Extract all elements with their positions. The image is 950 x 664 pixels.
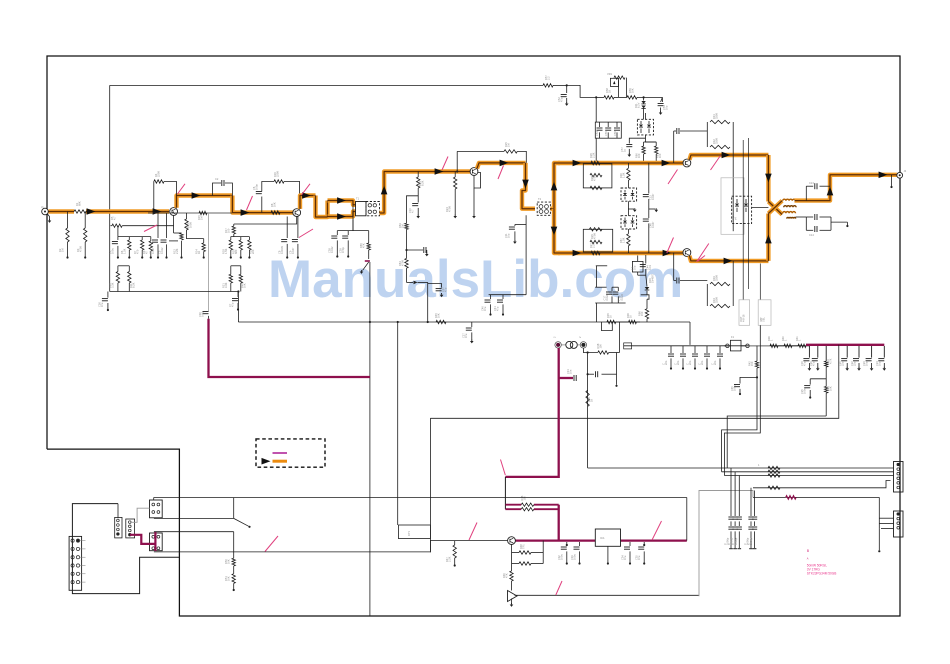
pink annotation leader 1 [178, 184, 186, 194]
svg-text:10K: 10K [631, 88, 635, 93]
resistor R53 [758, 463, 780, 470]
wire feedback corner [517, 151, 526, 163]
pink annotation leader 12 [265, 536, 278, 552]
resistor R51 [224, 574, 236, 591]
svg-text:470p: 470p [341, 247, 345, 253]
pink note marker B [807, 549, 810, 553]
resistor pair lower box [707, 275, 733, 308]
svg-text:2.2K: 2.2K [592, 152, 596, 158]
svg-text:330K: 330K [715, 138, 719, 144]
svg-text:1K: 1K [590, 399, 594, 402]
svg-text:100K: 100K [189, 222, 193, 228]
magenta sense line [209, 319, 371, 377]
signal arrow 10 [500, 160, 509, 167]
svg-text:470K: 470K [448, 206, 452, 212]
transistor Q5 [683, 249, 691, 257]
capacitor C3 [108, 237, 119, 259]
wire harness h2 [722, 471, 894, 473]
orange path Q5 vert [766, 214, 770, 261]
capacitor bank C54-C56 [595, 122, 622, 138]
signal arrow 16 [573, 250, 582, 257]
signal arrow 22 up [827, 187, 834, 196]
wire comparator out [515, 594, 700, 596]
transformer T3 winding 3 [783, 212, 796, 214]
svg-text:100: 100 [658, 153, 662, 158]
svg-text:22n: 22n [676, 360, 680, 365]
orange path Q4 out [690, 155, 769, 160]
capacitor C27 bus [461, 322, 473, 343]
capacitor C8 [277, 217, 288, 259]
resistor ladder upper [583, 164, 612, 190]
capacitor C34 [620, 542, 631, 565]
svg-text:47K: 47K [362, 243, 366, 248]
resistor R59 [627, 88, 637, 99]
wire vertical C [429, 418, 431, 552]
svg-text:1000p: 1000p [734, 537, 738, 545]
capacitor C4 [148, 213, 159, 259]
capacitor C6 Q2 feedback [252, 182, 274, 213]
magenta bottom trunk [505, 348, 558, 477]
magenta to rail [558, 505, 560, 541]
capacitor C5 [157, 213, 167, 259]
pink annotation leader 13 [469, 523, 477, 541]
resistor R39 [767, 336, 778, 348]
svg-text:1.5K: 1.5K [622, 237, 626, 243]
watermark [268, 250, 683, 309]
label box winding 2 [758, 300, 771, 326]
svg-text:8.2K: 8.2K [421, 180, 425, 186]
capacitor bank heater [661, 346, 723, 370]
capacitor C57 [620, 145, 633, 157]
signal arrow 11 down [522, 180, 529, 189]
resistor R17 [224, 224, 236, 237]
svg-text:10K: 10K [243, 283, 247, 288]
transformer T3 winding 1 [783, 199, 796, 201]
capacitor C16 coupling low [674, 253, 708, 284]
magenta bridge rail upper [505, 504, 558, 506]
regulator box U1 [595, 529, 620, 565]
capacitor C22 [850, 346, 861, 371]
wire bias to cross [752, 207, 769, 209]
resistor R18 [221, 237, 232, 259]
resistor R23 [417, 172, 425, 189]
wire lower box right leg [732, 261, 734, 284]
svg-text:680: 680 [234, 249, 238, 254]
wire lower pair rail [118, 265, 129, 267]
pink annotation leader 14 [501, 460, 506, 476]
wire bundle line1 [727, 416, 826, 468]
wire CN5 pin3 [881, 528, 894, 530]
wire harness feed [587, 351, 589, 468]
connector CN1 dsub [69, 536, 85, 590]
pink annotation leader 9 [711, 156, 721, 171]
label box winding 1 [739, 300, 750, 326]
wire bus tail [636, 321, 690, 323]
resistor R57 on B+ rail [543, 75, 553, 87]
wire snubber down [689, 322, 691, 345]
capacitor C24 [875, 346, 886, 371]
capacitor C17 [602, 287, 612, 303]
capacitor C26 [97, 292, 109, 312]
capacitor C53 [658, 97, 669, 115]
signal arrow 1 [87, 208, 96, 215]
wire cluster join [638, 272, 646, 275]
wire chain mid [233, 566, 235, 574]
pink annotation leader 3 [302, 184, 311, 195]
svg-text:10u: 10u [878, 361, 882, 366]
svg-text:100u: 100u [573, 554, 577, 560]
capacitor C20 [809, 346, 820, 371]
diode pack D14 dashed [621, 216, 637, 229]
wire bias verticals [743, 138, 748, 300]
svg-text:100p: 100p [255, 184, 259, 190]
svg-text:150: 150 [640, 311, 644, 316]
svg-text:10K: 10K [273, 202, 277, 207]
resistor R8 series [270, 202, 280, 214]
svg-text:47u: 47u [483, 306, 487, 311]
svg-text:220: 220 [251, 249, 255, 254]
wire to zener [637, 96, 662, 98]
bias diode dashed box [731, 196, 752, 223]
svg-text:330K: 330K [715, 113, 719, 119]
orange path upper power rail [558, 161, 686, 165]
wire Z bracket [595, 266, 607, 287]
svg-text:100: 100 [227, 228, 231, 233]
wire CN5 pin2 [879, 522, 893, 524]
svg-text:330K: 330K [715, 275, 719, 281]
capacitor C23 [862, 346, 874, 371]
orange path Q5 out [690, 256, 769, 261]
magenta jumper [130, 535, 155, 544]
transformer T3 winding 4 [787, 218, 796, 219]
wire Q1 base-line [148, 212, 232, 214]
wire cluster rail [595, 287, 625, 322]
resistor R66 [637, 309, 648, 322]
svg-text:10K: 10K [437, 313, 441, 318]
resistor R36 on bus [626, 313, 637, 324]
orange path splitter spine [550, 163, 560, 209]
capacitor C32 [557, 542, 568, 565]
svg-text:1.5K: 1.5K [622, 172, 626, 178]
signal arrow 12 up [551, 182, 558, 191]
capacitor C44 inline [640, 255, 652, 275]
wire r40-r41 [792, 345, 798, 347]
wire Q1 emitter [173, 215, 175, 225]
wire CN5 drop [878, 497, 880, 528]
wire H3 rise [430, 541, 507, 553]
wire emitter branch left [122, 225, 173, 227]
signal arrow 6 [337, 197, 346, 204]
resistor R20 [248, 237, 255, 259]
magenta tap mark [365, 260, 370, 262]
resistor R10 [108, 266, 120, 292]
wire RC tee [405, 249, 423, 251]
bus wire mid [110, 291, 239, 293]
bus wire lower [238, 321, 640, 323]
pink annotation leader 2 [247, 196, 253, 210]
resistor R30 grid [619, 163, 630, 188]
connector CN5 [894, 511, 904, 537]
svg-text:0.047: 0.047 [651, 221, 655, 228]
svg-text:470K: 470K [593, 233, 597, 239]
svg-text:10u: 10u [507, 233, 511, 238]
svg-text:T1: T1 [356, 197, 360, 201]
signal arrow 5 [302, 192, 311, 199]
svg-text:470K: 470K [79, 246, 83, 252]
output jack J4 [897, 169, 907, 178]
signal arrow 13 down [551, 227, 558, 236]
svg-text:2: 2 [553, 336, 557, 338]
gray return wire [699, 491, 753, 597]
svg-text:0.022: 0.022 [605, 293, 609, 300]
connector CN2 header [115, 517, 122, 538]
capacitor C38 [327, 231, 338, 258]
resistor R11 [128, 266, 136, 292]
svg-text:C55: C55 [604, 131, 608, 136]
pink annotation leader 10 [697, 244, 709, 262]
wire T2 sense vertical [525, 215, 527, 294]
orange path output [795, 175, 897, 201]
svg-text:68K: 68K [78, 201, 82, 206]
wire second level [810, 378, 826, 380]
svg-text:10K: 10K [227, 576, 231, 581]
capacitor C21 [838, 346, 849, 371]
resistor R27 in rail [589, 242, 600, 254]
svg-text:22n: 22n [664, 360, 668, 365]
svg-text:10u: 10u [633, 265, 637, 270]
resistor R24 [445, 172, 457, 219]
wire bus gap [616, 321, 629, 323]
wire T3 winding4 lead [796, 216, 807, 218]
capacitor C37 [428, 284, 448, 298]
wire cap feed [661, 97, 663, 102]
svg-text:STK23PG34M 50GB: STK23PG34M 50GB [807, 571, 837, 575]
capacitor C15 coupling [674, 128, 708, 163]
svg-text:100: 100 [599, 344, 603, 349]
svg-text:47u: 47u [496, 306, 500, 311]
svg-text:2: 2 [578, 336, 582, 338]
wire diode mid [628, 201, 636, 216]
svg-text:4.7: 4.7 [411, 209, 415, 213]
wire H3 feed [234, 551, 431, 553]
svg-text:100u: 100u [560, 554, 564, 560]
capacitor C10 [408, 188, 420, 218]
pink annotation leader 16 [652, 521, 662, 540]
resistor R61 [655, 142, 663, 163]
capacitor C52 supply bypass [557, 85, 569, 106]
capacitor C33 [570, 542, 581, 565]
transistor Q4 [683, 159, 691, 167]
wire Q2 rail [231, 236, 250, 238]
svg-text:220K: 220K [276, 171, 280, 177]
orange path rail lower [328, 212, 357, 217]
component box small [630, 256, 643, 273]
transistor Q6 regulator [508, 537, 516, 545]
svg-text:470K: 470K [401, 260, 405, 266]
capacitor comb A3 [731, 476, 742, 549]
svg-text:10u: 10u [665, 105, 669, 110]
resistor R64 bias chain2 [398, 250, 408, 282]
wire H1 drop [686, 498, 688, 541]
capacitor C13 output [806, 181, 830, 201]
resistor R1 input [74, 201, 86, 213]
resistor R45 bus [434, 313, 446, 324]
wire K2 loop [154, 498, 234, 519]
wire R42 branch [740, 376, 758, 383]
resistor R7 [133, 237, 144, 259]
resistor R9 [142, 237, 153, 259]
orange path down to interstage [232, 196, 293, 213]
ground input jack [48, 214, 52, 223]
wire r39-r40 [778, 345, 784, 347]
wire Q6 loop [511, 545, 513, 553]
wire cap bank feed [595, 97, 597, 122]
svg-text:100u: 100u [111, 248, 115, 254]
svg-text:VR1: VR1 [607, 72, 613, 76]
wire B+ to node [553, 84, 568, 86]
svg-text:0.047: 0.047 [151, 247, 155, 254]
wire C10 tap [407, 196, 419, 224]
capacitor comb B1 [743, 488, 754, 549]
svg-text:TP1: TP1 [522, 544, 526, 549]
svg-text:1.5K: 1.5K [224, 248, 228, 254]
svg-text:0.047: 0.047 [651, 193, 655, 200]
svg-text:47u: 47u [803, 361, 807, 366]
transformer T3 winding 2 [784, 206, 796, 208]
pink annotation leader 5 [144, 225, 157, 232]
resistor R5 [110, 216, 122, 228]
svg-text:C13: C13 [809, 181, 814, 185]
orange signal path to Q1 [86, 209, 169, 213]
signal arrow 17 [663, 250, 672, 257]
svg-text:T2: T2 [538, 197, 542, 201]
feedback resistor R4 over Q1 [154, 171, 177, 212]
resistor R16 Q2 feedback [273, 171, 300, 196]
capacitor C35 [634, 542, 645, 565]
svg-text:10K: 10K [829, 386, 833, 391]
svg-text:1M: 1M [507, 143, 511, 147]
coupling transformer T2 dashed [537, 197, 550, 215]
wire vertical dropper B [397, 321, 399, 525]
relay box K3 [150, 533, 163, 551]
svg-text:0.022: 0.022 [330, 246, 334, 253]
magenta stub K3 [154, 532, 156, 552]
signal arrow 18 [722, 152, 731, 159]
orange signal path input segment [49, 209, 75, 213]
svg-text:IC1: IC1 [600, 536, 605, 540]
signal arrow 4 [241, 209, 250, 216]
jack J3 pilot [578, 336, 587, 348]
trimmer VR1 [607, 72, 626, 97]
transistor Q3 [470, 168, 478, 176]
resistor R67 low [619, 229, 630, 253]
zener triangle D17 [508, 591, 518, 607]
wire upper box right leg [732, 147, 734, 231]
wire resistor chain [233, 552, 235, 558]
ground hook T1 [360, 262, 369, 274]
capacitor C42 parallel loop [601, 322, 612, 331]
svg-text:0.022: 0.022 [620, 293, 624, 300]
legend dashed box [256, 439, 325, 467]
signal arrow 15 [662, 160, 671, 167]
heater bus start box [624, 343, 632, 349]
wire B+ supply rail [110, 84, 543, 86]
svg-text:1K: 1K [197, 251, 201, 254]
resistor R44 [825, 386, 833, 416]
svg-text:47u: 47u [623, 555, 627, 560]
resistor R14 [194, 239, 205, 259]
svg-text:RY1: RY1 [407, 530, 411, 536]
wire Q3 emitter loop [474, 173, 481, 189]
svg-text:10u: 10u [865, 361, 869, 366]
resistor R60 [634, 142, 645, 163]
svg-text:22n: 22n [688, 360, 692, 365]
resistor R12 [169, 226, 183, 259]
resistor ladder lower [583, 228, 612, 252]
wire inner vertical feed [109, 85, 111, 291]
pink annotation leader 6 [442, 157, 448, 171]
transistor Q1 [170, 208, 178, 216]
connector CN3 header [126, 519, 135, 538]
wire L1 corner [430, 345, 838, 419]
wire line4 [753, 481, 891, 488]
svg-text:1000p: 1000p [749, 537, 753, 545]
orange path lower power rail [558, 251, 686, 255]
resistor R6 [120, 237, 131, 259]
svg-text:100u: 100u [733, 385, 737, 391]
capacitor comb B2 [746, 491, 757, 549]
svg-text:SEL: SEL [762, 317, 766, 322]
orange path step down [316, 196, 328, 218]
svg-text:1K: 1K [608, 90, 612, 93]
resistor R3 shunt [76, 212, 87, 259]
svg-text:4.7: 4.7 [113, 216, 117, 220]
wire diode down [646, 299, 648, 309]
svg-text:0.022: 0.022 [160, 247, 164, 254]
magenta supply bus [806, 344, 884, 346]
svg-text:1M: 1M [401, 224, 405, 228]
orange path cross upper [768, 202, 782, 215]
wire trunk drop [504, 477, 506, 509]
capacitor C25 [800, 379, 812, 399]
pink note marker A [807, 557, 809, 561]
capacitor C11 [504, 225, 517, 244]
wire cap bank to rail [595, 138, 597, 163]
wire outer border frame left/top/right/bottom [47, 56, 900, 616]
capacitor comb A2 [727, 472, 738, 549]
orange path spine down [554, 209, 560, 253]
resistor R54 [768, 470, 780, 473]
orange path Q3 out [477, 163, 526, 169]
svg-text:330K: 330K [715, 297, 719, 303]
coupling box T1 [356, 197, 367, 216]
svg-text:100: 100 [637, 153, 641, 158]
capacitor C41 [493, 295, 504, 316]
svg-text:47u: 47u [100, 302, 104, 307]
capacitor C39 [338, 231, 349, 258]
legend arrow [262, 458, 271, 465]
resistor R35 on bus [606, 313, 616, 324]
wire H1 long [154, 497, 687, 499]
resistor R21 [221, 266, 232, 292]
svg-text:0.0039: 0.0039 [280, 246, 284, 254]
capacitor C9 [288, 217, 299, 259]
wire long gray sense [208, 213, 210, 312]
magenta mini resistor [786, 496, 796, 499]
capacitor C2 over top [213, 177, 233, 196]
capacitor comb A1 [723, 468, 734, 549]
svg-text:2.2K: 2.2K [448, 556, 452, 562]
